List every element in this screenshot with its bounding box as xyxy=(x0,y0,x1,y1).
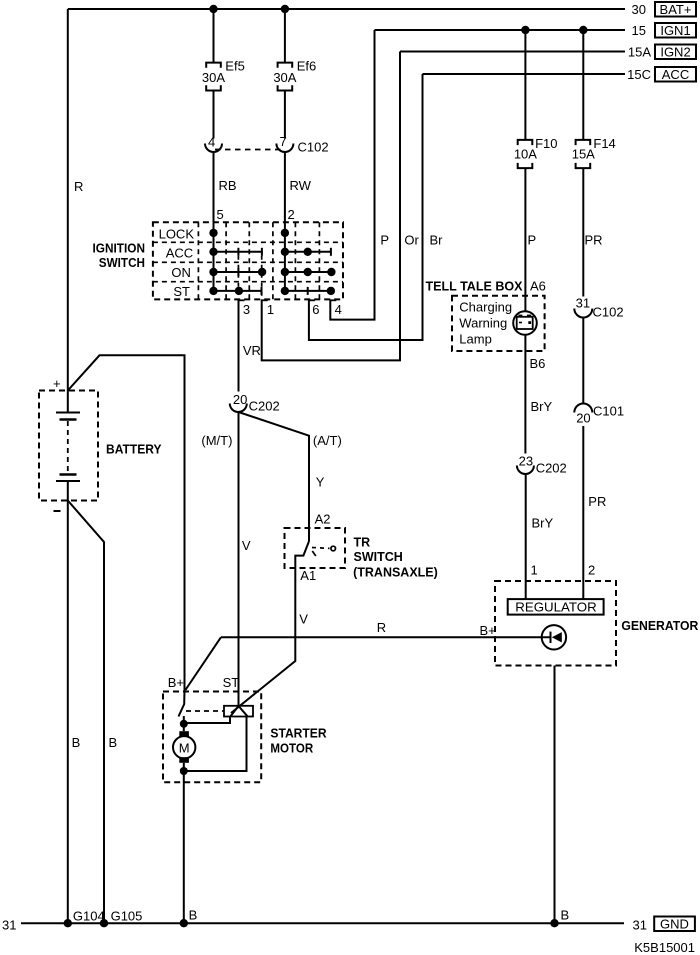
contact row ACC right xyxy=(285,248,331,256)
svg-text:K5B15001: K5B15001 xyxy=(634,940,695,955)
label TR SWITCH (TRANSAXLE) xyxy=(353,536,438,580)
wire bus30 to fuse Ef5 xyxy=(213,9,215,63)
starter motor box xyxy=(163,692,261,783)
svg-text:SWITCH: SWITCH xyxy=(354,550,403,564)
wire pin 6 to bus 15C (Br) xyxy=(309,74,423,340)
svg-text:F14: F14 xyxy=(593,136,615,151)
switch pole pin 5 xyxy=(209,222,217,295)
svg-text:C101: C101 xyxy=(593,404,624,419)
svg-text:ACC: ACC xyxy=(166,245,193,260)
pin 4 stub and label xyxy=(330,300,342,317)
svg-text:VR: VR xyxy=(243,343,261,358)
terminal box BAT+ xyxy=(655,2,696,17)
junction dot starter ground xyxy=(180,919,188,927)
wire bus15 to fuse F10 xyxy=(524,30,526,140)
wire bus 15 xyxy=(375,29,626,31)
pin 1 column dashed xyxy=(261,256,263,300)
svg-text:31: 31 xyxy=(576,295,590,310)
motor M xyxy=(173,731,195,763)
svg-text:BAT+: BAT+ xyxy=(660,2,692,17)
connector C101 pin 20 xyxy=(574,404,624,426)
svg-text:15A: 15A xyxy=(572,147,595,162)
svg-text:(A/T): (A/T) xyxy=(313,433,342,448)
junction dot generator ground xyxy=(550,919,558,927)
terminal box IGN1 xyxy=(655,23,696,38)
wire pin 3 VR to C202-20 xyxy=(238,299,240,391)
svg-text:B: B xyxy=(561,908,570,923)
svg-text:31: 31 xyxy=(2,918,16,933)
svg-text:BrY: BrY xyxy=(531,399,553,414)
svg-text:IGN2: IGN2 xyxy=(660,44,690,59)
wire left main R (bus30 to battery +) xyxy=(67,9,69,391)
svg-text:V: V xyxy=(299,612,308,627)
ignition switch grid rows xyxy=(153,242,343,281)
svg-text:F10: F10 xyxy=(535,136,557,151)
wire bus30 to fuse Ef6 xyxy=(284,9,286,63)
svg-text:STARTER: STARTER xyxy=(270,727,326,741)
svg-text:10A: 10A xyxy=(514,147,537,162)
fuse Ef5 30A xyxy=(202,59,245,91)
junction dot motor bottom xyxy=(180,767,188,775)
svg-text:A6: A6 xyxy=(530,279,546,294)
pin 3 stub and label xyxy=(239,300,251,317)
svg-text:TELL TALE BOX: TELL TALE BOX xyxy=(426,280,524,294)
label STARTER MOTOR xyxy=(270,727,326,756)
svg-text:15A: 15A xyxy=(628,44,651,59)
svg-text:20: 20 xyxy=(576,411,590,426)
svg-text:MOTOR: MOTOR xyxy=(270,742,313,756)
wire bus 31 xyxy=(21,922,624,924)
solenoid mechanical link dashed xyxy=(186,710,224,712)
wire A/T branch to TR switch A2 xyxy=(239,412,310,528)
svg-text:R: R xyxy=(377,620,386,635)
svg-text:4: 4 xyxy=(335,302,342,317)
junction dot bus30/Ef6 xyxy=(281,5,289,13)
svg-text:Y: Y xyxy=(316,475,325,490)
svg-text:GENERATOR: GENERATOR xyxy=(621,619,698,633)
contact row ST right xyxy=(285,287,335,295)
svg-text:BATTERY: BATTERY xyxy=(106,443,162,457)
connector C102 pin 31 xyxy=(574,295,623,319)
tell tale box xyxy=(452,296,545,351)
svg-text:31: 31 xyxy=(633,918,647,933)
diode D1 xyxy=(542,625,566,649)
svg-text:1: 1 xyxy=(267,302,274,317)
svg-text:1: 1 xyxy=(531,563,538,578)
svg-text:(M/T): (M/T) xyxy=(201,433,232,448)
svg-text:R: R xyxy=(74,179,83,194)
pin 6 stub and label xyxy=(309,300,320,317)
wire Ef6 to connector C102-7 xyxy=(284,91,286,139)
svg-text:Ef5: Ef5 xyxy=(225,59,245,74)
label Charging Warning Lamp xyxy=(459,300,512,347)
wire C102-31 to C101-20 xyxy=(582,318,584,404)
svg-text:B: B xyxy=(189,908,198,923)
terminal box IGN2 xyxy=(655,44,696,59)
svg-text:+: + xyxy=(53,376,61,391)
svg-text:IGNITION: IGNITION xyxy=(93,242,146,256)
svg-text:4: 4 xyxy=(208,134,215,149)
wire battery- to G105 drop xyxy=(68,501,104,924)
wire bus15 to fuse F14 xyxy=(582,30,584,140)
contact row ACC left xyxy=(214,248,262,256)
wire diagonal R to starter B+ xyxy=(185,637,221,690)
svg-text:PR: PR xyxy=(588,494,606,509)
svg-text:PR: PR xyxy=(585,233,603,248)
svg-text:G105: G105 xyxy=(111,909,143,924)
svg-text:G104: G104 xyxy=(73,909,105,924)
svg-text:M: M xyxy=(179,740,190,755)
junction dot bus30/Ef5 xyxy=(209,5,217,13)
svg-text:20: 20 xyxy=(233,392,247,407)
pin 1 stub and label xyxy=(262,300,274,317)
svg-text:ACC: ACC xyxy=(662,67,689,82)
svg-text:C102: C102 xyxy=(298,140,329,155)
svg-text:Lamp: Lamp xyxy=(459,332,492,347)
switch pole pin 2 xyxy=(281,222,289,295)
wire pin 1 to bus 15A (Or) xyxy=(262,52,400,361)
wire C102-7 to switch pin 2 xyxy=(284,152,286,222)
contact row ST left xyxy=(214,287,262,295)
svg-text:Or: Or xyxy=(404,233,419,248)
svg-text:C102: C102 xyxy=(593,305,624,320)
ground G105 xyxy=(100,909,143,928)
solenoid S xyxy=(224,706,253,717)
wire battery - to bus31 xyxy=(67,482,69,923)
svg-text:B: B xyxy=(109,735,118,750)
svg-text:P: P xyxy=(528,233,537,248)
svg-text:SWITCH: SWITCH xyxy=(99,256,145,270)
connector C102 pin 4 xyxy=(205,134,222,152)
svg-text:C202: C202 xyxy=(249,399,280,414)
fuse Ef6 30A xyxy=(273,59,316,91)
svg-text:30A: 30A xyxy=(273,70,296,85)
wire bus 15C xyxy=(423,73,626,75)
svg-text:BrY: BrY xyxy=(532,516,554,531)
terminal box ACC xyxy=(655,67,696,82)
wire battery+ riser R to starter B+ xyxy=(68,355,185,690)
svg-text:5: 5 xyxy=(217,207,224,222)
svg-text:ST: ST xyxy=(223,675,240,690)
svg-text:15: 15 xyxy=(632,23,646,38)
svg-text:P: P xyxy=(380,233,389,248)
contact row ON right xyxy=(285,268,336,276)
wire M/T V to starter solenoid ST xyxy=(238,412,240,706)
svg-text:TR: TR xyxy=(354,536,371,550)
svg-text:RB: RB xyxy=(219,178,237,193)
fuse F10 10A xyxy=(514,136,558,168)
wire bus 30 xyxy=(68,8,625,10)
pin 3 column dashed xyxy=(237,256,239,291)
connector C202 pin 20 xyxy=(230,392,280,414)
connector C202 pin 23 xyxy=(517,453,567,475)
terminal box GND xyxy=(654,916,695,931)
svg-text:B: B xyxy=(72,735,81,750)
ignition switch box xyxy=(153,222,343,299)
svg-text:GND: GND xyxy=(660,916,689,931)
wire solenoid left contact xyxy=(184,717,230,724)
svg-text:B6: B6 xyxy=(530,356,546,371)
svg-text:30: 30 xyxy=(632,2,646,17)
wire pin 4 to bus 15 (P) xyxy=(330,30,374,320)
svg-text:RW: RW xyxy=(290,178,312,193)
svg-text:Warning: Warning xyxy=(459,316,507,331)
svg-text:B+: B+ xyxy=(168,675,184,690)
wire A1 V to starter solenoid xyxy=(231,568,295,713)
svg-text:7: 7 xyxy=(280,134,287,149)
junction dot bus15/F14 xyxy=(579,26,587,34)
svg-text:ON: ON xyxy=(171,265,191,280)
ground G104 xyxy=(64,909,105,928)
svg-text:15C: 15C xyxy=(627,67,651,82)
wire C101-20 to regulator pin 2 xyxy=(582,426,584,599)
connector C102 pin 7 xyxy=(276,134,293,152)
fuse F14 15A xyxy=(572,136,616,168)
svg-text:C202: C202 xyxy=(536,461,567,476)
connector C102 dashed pair link xyxy=(215,149,283,151)
svg-text:2: 2 xyxy=(288,207,295,222)
junction dot starter switch xyxy=(180,720,188,728)
svg-text:23: 23 xyxy=(519,453,533,468)
svg-text:REGULATOR: REGULATOR xyxy=(515,599,597,614)
regulator box xyxy=(508,599,604,615)
svg-text:2: 2 xyxy=(588,563,595,578)
starter switch blade xyxy=(179,690,185,717)
wire C102-4 to switch pin 5 xyxy=(213,152,215,222)
svg-text:(TRANSAXLE): (TRANSAXLE) xyxy=(353,566,438,580)
svg-text:Br: Br xyxy=(430,233,444,248)
svg-text:B+: B+ xyxy=(480,623,496,638)
wire F14 PR to C102-31 xyxy=(582,168,584,296)
svg-text:Ef6: Ef6 xyxy=(297,59,317,74)
svg-text:3: 3 xyxy=(243,302,250,317)
wire motor to bus31 B xyxy=(183,763,185,923)
svg-text:30A: 30A xyxy=(202,70,225,85)
starter switch stub xyxy=(183,716,185,731)
charging warning lamp xyxy=(513,311,537,335)
wire R starter to generator B+ xyxy=(221,636,551,638)
svg-text:A2: A2 xyxy=(315,512,331,527)
wire generator output B to bus31 xyxy=(554,666,556,924)
svg-text:A1: A1 xyxy=(300,568,316,583)
generator box xyxy=(495,581,616,666)
junction dot bus15/F10 xyxy=(521,26,529,34)
label IGNITION SWITCH xyxy=(93,242,146,271)
svg-text:Charging: Charging xyxy=(459,300,512,315)
wire lamp to C202-23 xyxy=(524,335,526,453)
wire solenoid right contact xyxy=(184,717,247,772)
svg-text:IGN1: IGN1 xyxy=(660,23,690,38)
TR switch contact xyxy=(295,528,335,568)
svg-text:6: 6 xyxy=(312,302,319,317)
wire Ef5 to connector C102-4 xyxy=(213,91,215,139)
svg-text:LOCK: LOCK xyxy=(159,227,195,242)
svg-text:V: V xyxy=(242,538,251,553)
wire C202-23 to regulator pin 1 xyxy=(525,474,527,599)
TR switch box xyxy=(285,528,346,568)
ignition switch position labels xyxy=(159,227,195,299)
ignition switch grid columns xyxy=(198,222,319,299)
wire F10 P to lamp xyxy=(524,168,526,311)
battery BAT xyxy=(39,376,98,511)
wire bus 15A xyxy=(400,51,625,53)
svg-text:ST: ST xyxy=(173,284,190,299)
contact row ON left xyxy=(214,268,267,276)
